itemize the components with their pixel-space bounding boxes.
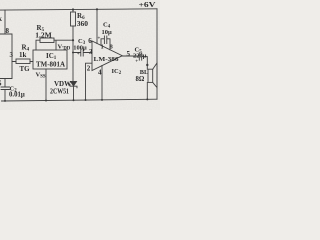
svg-text:+: + [77, 52, 80, 57]
svg-text:3: 3 [10, 51, 14, 59]
svg-text:5: 5 [127, 50, 131, 58]
svg-text:+6V: +6V [139, 0, 157, 9]
svg-text:+: + [98, 37, 101, 42]
svg-text:8Ω: 8Ω [136, 76, 145, 83]
svg-text:0.01μ: 0.01μ [9, 92, 25, 99]
svg-text:1: 1 [101, 44, 104, 51]
svg-text:6: 6 [88, 37, 92, 45]
svg-text:8: 8 [6, 27, 10, 35]
svg-text:TM-801A: TM-801A [36, 60, 65, 68]
svg-text:2: 2 [87, 64, 91, 72]
svg-text:10μ: 10μ [102, 29, 113, 36]
svg-text:2CW51: 2CW51 [50, 88, 69, 96]
svg-text:4: 4 [98, 68, 102, 76]
svg-text:1k: 1k [19, 51, 27, 59]
svg-text:1.2M: 1.2M [35, 31, 51, 40]
svg-text:360: 360 [77, 19, 89, 28]
svg-text:+: + [135, 59, 138, 64]
svg-text:BL: BL [140, 69, 148, 76]
svg-text:100μ: 100μ [73, 45, 87, 52]
svg-text:LM-386: LM-386 [94, 56, 120, 63]
svg-text:3: 3 [89, 48, 93, 56]
svg-text:TG: TG [20, 65, 31, 73]
svg-text:k: k [0, 15, 2, 23]
